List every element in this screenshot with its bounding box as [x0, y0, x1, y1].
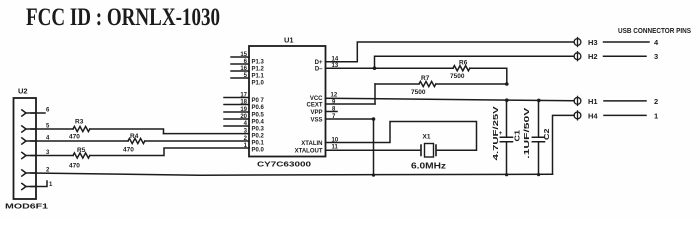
U1 pin 17 stub	[224, 97, 249, 99]
wire ground rail (U2 pin2 across bottom)	[31, 173, 553, 175]
connector pin H3	[574, 39, 581, 46]
svg-text:10: 10	[332, 138, 339, 144]
capacitor C1	[500, 100, 512, 175]
U1 pin 14 wire riser to H3	[326, 42, 574, 62]
svg-text:20: 20	[240, 114, 247, 120]
wire H2 to pin 3	[604, 55, 647, 57]
wire H1 to pin 2	[604, 100, 646, 102]
wire R5 to step up to U1 pin 1	[90, 148, 249, 156]
resistor R3	[73, 126, 90, 131]
svg-text:D–: D–	[315, 67, 323, 73]
svg-text:D+: D+	[315, 60, 323, 66]
svg-text:P0.5: P0.5	[252, 113, 265, 119]
svg-text:18: 18	[240, 100, 247, 106]
svg-text:1: 1	[654, 111, 658, 120]
svg-text:FCC ID : ORNLX-1030: FCC ID : ORNLX-1030	[26, 4, 220, 31]
wire H4 to pin 1	[604, 114, 646, 116]
connector pin H1	[574, 98, 581, 105]
resistor R6	[453, 66, 470, 71]
svg-text:P1.0: P1.0	[252, 81, 265, 87]
U2 pin 4 arrow	[22, 138, 36, 144]
U1 pin 16 stub	[231, 70, 249, 72]
svg-text:P0.6: P0.6	[252, 105, 265, 111]
svg-text:6.0MHz: 6.0MHz	[411, 161, 446, 170]
svg-text:4: 4	[654, 38, 659, 47]
svg-text:C2: C2	[542, 129, 551, 141]
U1 pin 10 XTALIN wire up over crystal	[326, 122, 477, 151]
svg-text:1: 1	[49, 182, 53, 188]
wire R7 line	[375, 83, 507, 85]
svg-text:2: 2	[654, 97, 658, 106]
U2 pin 3 wire to R5	[31, 155, 73, 157]
U1 pin 8 VPP stub	[326, 111, 338, 113]
svg-text:470: 470	[69, 163, 80, 170]
junction dot rail C2	[537, 173, 540, 176]
svg-text:R3: R3	[75, 119, 84, 126]
svg-text:USB CONNECTOR PINS: USB CONNECTOR PINS	[618, 26, 691, 35]
wire R3 to step	[90, 129, 164, 134]
svg-text:VPP: VPP	[310, 110, 322, 116]
svg-text:P0.1: P0.1	[252, 141, 265, 147]
U2 pin 1 arrow	[22, 183, 36, 189]
svg-text:P1.1: P1.1	[252, 74, 265, 80]
U1 pin 13 wire (D- line to R6)	[326, 67, 454, 69]
resistor R4	[128, 138, 145, 143]
connector U2 body	[14, 98, 37, 199]
crystal X1	[421, 145, 436, 156]
svg-text:7500: 7500	[411, 89, 426, 96]
svg-text:7500: 7500	[450, 73, 465, 80]
svg-text:XTALIN: XTALIN	[301, 141, 322, 147]
capacitor C2	[532, 100, 544, 174]
junction dot VCC-C1	[505, 98, 509, 102]
U2 pin 5 wire to R3	[31, 128, 73, 130]
svg-text:H1: H1	[588, 97, 598, 106]
svg-text:VSS: VSS	[310, 118, 322, 124]
svg-text:P0.4: P0.4	[252, 120, 265, 126]
U2 pin 1 wire stub up	[31, 181, 47, 187]
wire riser D- to H2	[375, 56, 575, 68]
wire VSS drop to rail	[373, 119, 375, 175]
U1 pin 12 VCC line to H1	[326, 98, 575, 101]
U1 pin 15 stub	[231, 56, 249, 58]
U2 pin 6 arrow	[22, 110, 36, 116]
U1 pin 20 stub	[224, 118, 249, 120]
U1 pin 9 CEXT wire	[326, 103, 376, 105]
U1 pin 18 stub	[224, 104, 249, 106]
IC U1 body	[249, 46, 326, 157]
svg-text:11: 11	[332, 145, 339, 151]
junction dot D- branch	[373, 66, 377, 70]
svg-text:P1.2: P1.2	[252, 67, 265, 73]
svg-text:19: 19	[240, 107, 247, 113]
junction dot VSS	[372, 117, 376, 121]
svg-text:U1: U1	[284, 35, 294, 44]
svg-text:470: 470	[69, 134, 80, 141]
svg-text:H4: H4	[588, 111, 598, 120]
junction dot rail C1	[505, 173, 508, 176]
svg-text:16: 16	[240, 66, 247, 72]
U2 pin 5 arrow	[22, 126, 36, 132]
svg-text:4.7UF/25V: 4.7UF/25V	[491, 106, 500, 160]
svg-text:H3: H3	[588, 38, 598, 47]
wire R4 to U1 pin 2	[145, 140, 249, 142]
svg-text:VCC: VCC	[310, 96, 323, 102]
wire R7 left drop to CEXT	[374, 84, 376, 104]
junction dot VCC-C2	[537, 99, 541, 103]
U2 pin 4 wire to R4	[31, 140, 128, 142]
wire H4 drop to rail	[553, 115, 575, 174]
svg-text:P0.0: P0.0	[252, 148, 265, 154]
svg-text:C1: C1	[513, 130, 522, 142]
svg-text:XTALOUT: XTALOUT	[295, 149, 323, 155]
svg-text:17: 17	[240, 93, 247, 99]
svg-text:MOD6F1: MOD6F1	[5, 202, 48, 211]
svg-text:6: 6	[46, 108, 50, 114]
svg-text:R5: R5	[77, 147, 86, 154]
U1 pin 19 stub	[224, 111, 249, 113]
svg-text:470: 470	[123, 147, 134, 154]
svg-text:P0 7: P0 7	[252, 98, 265, 104]
connector pin H2	[574, 53, 581, 60]
connector pin H4	[574, 112, 581, 119]
svg-text:13: 13	[332, 63, 339, 69]
svg-text:U2: U2	[18, 87, 28, 96]
wire step to U1 pin 3	[164, 133, 250, 135]
U1 pin 4 stub	[224, 125, 249, 127]
U2 pin 2 arrow	[22, 170, 36, 176]
svg-text:R7: R7	[421, 75, 430, 82]
svg-text:CY7C63000: CY7C63000	[257, 162, 311, 169]
svg-text:R4: R4	[130, 133, 139, 140]
svg-text:12: 12	[331, 93, 338, 99]
svg-text:R6: R6	[459, 60, 468, 67]
svg-text:X1: X1	[423, 134, 431, 141]
svg-text:3: 3	[654, 52, 658, 61]
wire R6 to node	[470, 68, 507, 84]
U2 pin 3 arrow	[22, 152, 36, 158]
svg-text:P1.3: P1.3	[252, 60, 265, 66]
U2 pin 6 wire stub	[31, 112, 45, 114]
resistor R5	[73, 153, 90, 158]
U1 pin 6 stub	[231, 63, 249, 65]
U1 pin 7 VSS wire	[326, 118, 374, 120]
svg-text:14: 14	[332, 57, 339, 63]
junction dot rail VSS	[372, 174, 375, 177]
resistor R7	[419, 81, 436, 86]
svg-text:H2: H2	[588, 52, 598, 61]
svg-text:.1UF/50V: .1UF/50V	[522, 108, 531, 159]
svg-text:15: 15	[240, 52, 247, 58]
svg-text:P0.2: P0.2	[252, 134, 265, 140]
wire H3 to pin 4	[604, 41, 650, 43]
junction dot R6/R7 node	[505, 82, 509, 86]
U1 pin 11 XTALOUT wire to crystal	[326, 149, 421, 151]
svg-text:P0.3: P0.3	[252, 127, 265, 133]
svg-text:CEXT: CEXT	[306, 103, 322, 109]
U1 pin 5 stub	[231, 77, 249, 79]
